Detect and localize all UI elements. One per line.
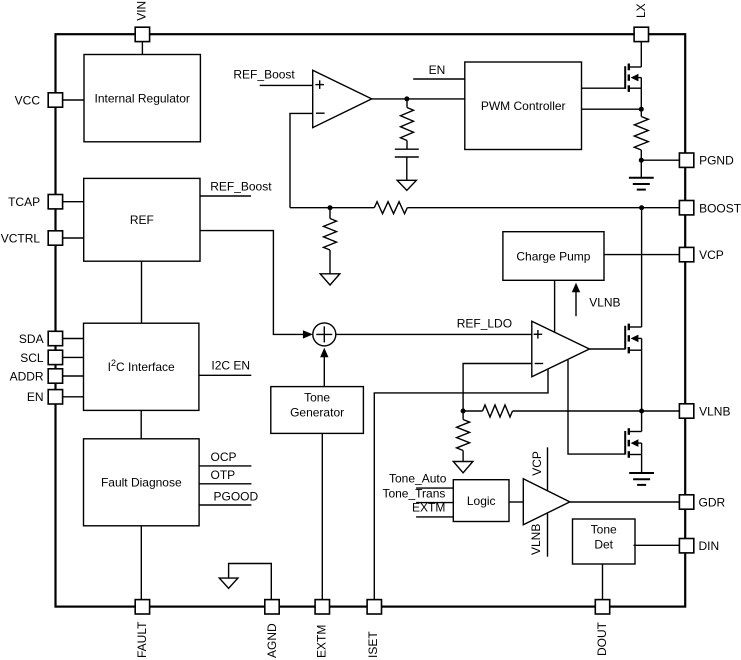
wire ADDR pin to I2C Interface — [63, 375, 84, 377]
wire PGND node to PGND pin — [641, 159, 679, 161]
block I2C Interface — [84, 323, 199, 410]
junction boost divider tap — [328, 205, 333, 210]
block Logic — [453, 480, 509, 522]
svg-text:VLNB: VLNB — [529, 524, 543, 555]
pin BOOST — [679, 201, 741, 216]
pin AGND — [265, 600, 279, 658]
svg-text:REF_LDO: REF_LDO — [457, 317, 512, 331]
wire AGND pin to analog ground — [229, 564, 272, 600]
node REF_Boost label at comparator input — [233, 68, 312, 86]
wire VCTRL pin to REF — [63, 237, 84, 239]
node REF_LDO wire summing junction to U2 — [336, 317, 532, 335]
wire Q2 source to VLNB node — [641, 350, 643, 411]
block REF — [84, 178, 200, 261]
ground analog below C1 — [397, 180, 416, 190]
pin SDA — [19, 331, 63, 346]
wire REF to summing junction — [200, 231, 313, 339]
wire Charge Pump to VCP pin — [604, 254, 679, 256]
pin VCTRL — [1, 231, 63, 246]
junction PGND node — [639, 158, 644, 163]
chip boundary — [56, 34, 686, 606]
resistor R6 VLNB feedback bottom — [457, 411, 470, 462]
block Internal Regulator — [84, 55, 200, 142]
svg-text:VCTRL: VCTRL — [1, 231, 41, 245]
pin EXTM — [315, 600, 330, 658]
svg-text:Tone_Auto: Tone_Auto — [389, 472, 447, 486]
svg-text:ISET: ISET — [366, 631, 380, 658]
wire I2C Interface to Fault Diagnose — [140, 410, 142, 438]
wire Q3 drain to VLNB node — [641, 411, 643, 432]
block PWM Controller — [465, 62, 582, 150]
block Charge Pump — [503, 232, 604, 281]
svg-text:VCC: VCC — [15, 93, 41, 107]
svg-text:REF_Boost: REF_Boost — [210, 179, 272, 193]
wire Fault Diagnose to FAULT pin — [140, 526, 142, 600]
ground analog below R6 — [453, 462, 473, 473]
svg-text:REF: REF — [130, 213, 154, 227]
svg-text:FAULT: FAULT — [135, 621, 149, 658]
junction VLNB node — [639, 409, 644, 414]
wire U1 output to PWM Controller — [372, 98, 465, 100]
svg-text:PWM Controller: PWM Controller — [481, 99, 566, 113]
svg-text:EXTM: EXTM — [412, 501, 445, 515]
transistor Q1 boost switch NMOS — [625, 64, 641, 92]
op-amp U2 LDO error amplifier — [532, 321, 590, 377]
node PGOOD stub — [199, 490, 258, 505]
op-amp U1 boost error amplifier — [313, 70, 372, 127]
svg-text:Generator: Generator — [290, 406, 344, 420]
wire Charge Pump output to U2 supply — [554, 280, 556, 332]
svg-text:EN: EN — [429, 63, 446, 77]
pin PGND — [679, 153, 734, 168]
svg-text:Charge Pump: Charge Pump — [516, 249, 590, 263]
wire REF to I2C Interface — [141, 261, 143, 323]
ground analog near AGND — [219, 578, 238, 588]
svg-text:DOUT: DOUT — [595, 621, 609, 656]
pin FAULT — [135, 600, 149, 658]
svg-text:DIN: DIN — [699, 539, 720, 553]
pin DOUT — [595, 600, 610, 656]
svg-text:SDA: SDA — [19, 332, 44, 346]
wire SCL pin to I2C Interface — [63, 356, 84, 358]
resistor R3 boost feedback top — [374, 202, 407, 214]
svg-text:Tone_Trans: Tone_Trans — [382, 486, 445, 500]
wire BOOST node down to output stage — [641, 208, 643, 327]
svg-text:EN: EN — [27, 390, 44, 404]
wire VLNB node to VLNB pin — [513, 410, 680, 412]
node VCP supply stub of U3 — [530, 447, 548, 491]
junction VLNB feedback tap — [461, 409, 466, 414]
wire Q1 source to sense node — [640, 88, 642, 116]
svg-text:OCP: OCP — [211, 450, 237, 464]
node I2C EN stub — [199, 358, 251, 375]
svg-text:VCP: VCP — [699, 248, 724, 262]
block Tone Generator — [271, 387, 364, 434]
wire R1 to C1 — [406, 141, 408, 150]
svg-text:LX: LX — [634, 3, 648, 18]
svg-text:AGND: AGND — [265, 623, 279, 658]
wire R2 to ground — [329, 250, 331, 274]
wire Tone Det to DOUT pin — [602, 564, 604, 600]
node REF_Boost stub at REF output — [200, 179, 272, 196]
svg-text:VLNB: VLNB — [589, 296, 620, 310]
pin VCP — [679, 247, 723, 261]
svg-text:REF_Boost: REF_Boost — [233, 68, 295, 82]
svg-text:Logic: Logic — [467, 494, 496, 508]
capacitor C1 compensation — [395, 149, 419, 180]
wire BOOST node left segment — [290, 207, 374, 209]
node OCP stub — [199, 450, 251, 466]
wire TCAP pin to REF — [63, 201, 84, 203]
wire Tone Generator to summing junction arrow — [320, 348, 328, 387]
node EXTM input to Logic — [412, 501, 453, 517]
svg-text:OTP: OTP — [211, 468, 236, 482]
wire Q3 source to ground — [641, 455, 643, 474]
block Tone Det — [573, 519, 636, 564]
pin SCL — [20, 350, 62, 365]
node Tone_Trans input to Logic — [382, 486, 453, 502]
resistor R4 current sense — [634, 117, 648, 150]
node Tone_Auto input to Logic — [389, 472, 453, 489]
wire EN pin to I2C Interface — [63, 396, 84, 398]
pin EN — [27, 390, 63, 405]
wire PWM Controller current sense input — [582, 108, 642, 110]
svg-text:Tone: Tone — [591, 523, 617, 537]
svg-text:PGND: PGND — [699, 154, 734, 168]
wire U2 output to Q2 gate — [589, 348, 625, 350]
svg-text:Internal Regulator: Internal Regulator — [95, 92, 190, 106]
wire R4 to PGND node — [640, 150, 642, 160]
wire divider tap to R2 — [329, 208, 331, 219]
node VLNB arrow into Charge Pump — [572, 283, 621, 316]
wire Logic to gate driver buffer — [509, 501, 523, 503]
wire compensation node — [406, 99, 408, 108]
ground power below Q3 — [629, 473, 654, 485]
svg-text:VIN: VIN — [135, 1, 149, 21]
wire U1 inverting feedback to BOOST divider — [290, 113, 313, 207]
wire U2 inverting input feedback — [463, 364, 532, 412]
svg-text:SCL: SCL — [20, 351, 44, 365]
summing junction S1 — [313, 323, 336, 346]
wire U3 output to GDR pin — [570, 501, 680, 503]
svg-text:Det: Det — [594, 538, 613, 552]
pin GDR — [679, 495, 725, 510]
resistor R2 boost feedback bottom — [324, 219, 337, 251]
node EN stub to PWM Controller — [413, 63, 465, 79]
pin ADDR — [10, 369, 63, 384]
pin ISET — [366, 600, 382, 658]
wire BOOST node right segment to BOOST pin — [407, 207, 679, 209]
wire Tone Det to DIN pin — [634, 544, 680, 546]
transistor Q3 low side output NMOS — [625, 428, 641, 458]
pin DIN — [679, 539, 719, 554]
junction Q1 source node — [639, 107, 644, 112]
pin TCAP — [8, 195, 63, 210]
wire tap to R5 — [463, 410, 482, 412]
svg-text:GDR: GDR — [699, 495, 726, 509]
pin VCC — [15, 93, 63, 108]
svg-text:TCAP: TCAP — [8, 195, 40, 209]
svg-text:BOOST: BOOST — [699, 201, 741, 215]
svg-text:VLNB: VLNB — [699, 404, 730, 418]
pin VLNB — [679, 404, 730, 419]
wire VIN pin to Internal Regulator — [141, 42, 143, 55]
transistor Q2 high side output NMOS — [625, 324, 641, 354]
wire U2 to Q3 gate — [568, 360, 625, 454]
resistor R5 VLNB feedback top — [483, 405, 513, 417]
node VLNB supply stub of U3 — [529, 514, 547, 557]
svg-text:Tone: Tone — [304, 391, 330, 405]
wire SDA pin to I2C Interface — [63, 338, 84, 340]
ground analog below R2 — [320, 274, 340, 285]
wire VCC pin to Internal Regulator — [63, 99, 84, 101]
svg-text:I2C Interface: I2C Interface — [108, 358, 175, 374]
buffer U3 gate driver — [523, 479, 570, 525]
wire ISET pin to error amp U2 — [374, 370, 548, 600]
svg-text:Fault Diagnose: Fault Diagnose — [101, 476, 182, 490]
svg-text:EXTM: EXTM — [315, 625, 329, 658]
ground power PGND — [629, 160, 654, 189]
svg-text:I2C EN: I2C EN — [211, 358, 250, 372]
node OTP stub — [199, 468, 251, 484]
block Fault Diagnose — [84, 439, 200, 526]
junction BOOST node — [639, 205, 644, 210]
resistor R1 compensation — [401, 108, 414, 141]
junction U1 output node — [404, 96, 409, 101]
svg-text:PGOOD: PGOOD — [214, 490, 259, 504]
svg-text:ADDR: ADDR — [10, 369, 44, 383]
pin LX — [634, 3, 649, 41]
wire Q1 drain to LX pin — [640, 42, 642, 67]
pin VIN — [135, 1, 150, 42]
wire EXTM pin to Tone Generator — [321, 433, 323, 599]
wire PWM Controller to Q1 gate — [582, 87, 626, 89]
svg-text:VCP: VCP — [530, 451, 544, 476]
